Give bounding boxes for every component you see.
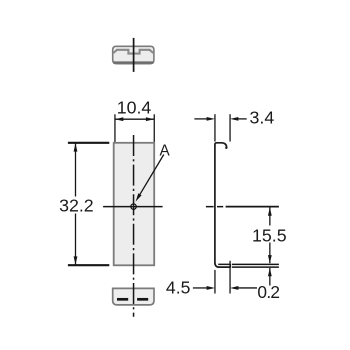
dimension 4.5 line right tail [238,287,257,289]
svg-text:10.4: 10.4 [117,97,152,117]
dimension 3.4 line right tail [238,118,247,120]
top view centerline [133,38,135,72]
dimension 15.5 line [269,207,271,225]
front view plate [114,143,155,265]
front view vertical centerline [133,135,135,317]
dimension 10.4 line [115,118,154,120]
side view profile [215,143,230,267]
svg-text:3.4: 3.4 [250,108,275,128]
dimension 32.2 line [75,143,77,196]
svg-text:15.5: 15.5 [252,225,287,245]
dimension 4.5 line left tail [193,287,207,289]
dimension 4.5 extension lines [214,270,216,294]
top view bottom edge band [113,61,153,63]
svg-text:A: A [159,142,170,159]
side view leg end face [229,264,231,268]
side view hole centerline [206,206,214,208]
side view leg top surface [218,263,230,265]
bottom view hidden dash right [137,298,148,301]
bottom view shape [113,288,154,305]
side view leg extension line upper [232,263,279,265]
side view leg extension line lower [232,266,279,268]
dimension 3.4 extension lines [214,114,216,141]
dimension 32.2 extension lines [68,142,109,144]
hole A circle [131,204,136,209]
svg-text:32.2: 32.2 [59,195,94,215]
front view horizontal centerline [103,206,163,208]
dimension 3.4 line left tail [194,118,207,120]
svg-text:4.5: 4.5 [166,278,191,298]
top view inner contour [113,50,153,54]
bottom view hidden dash left [117,298,128,301]
dimension 0.2 line [269,268,271,286]
leader line to hole A [140,155,164,195]
top view outer shape [113,46,154,63]
dimension 10.4 extension lines [114,114,116,142]
svg-text:0.2: 0.2 [257,282,279,302]
